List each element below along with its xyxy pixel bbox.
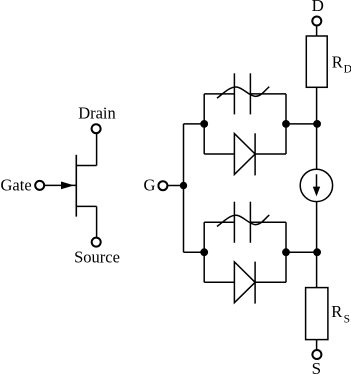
transistor J1 gate arrowhead — [61, 182, 74, 190]
wire lower diode rail left — [204, 281, 234, 283]
wire lower pair right vertical — [285, 222, 287, 282]
wire gate lead — [45, 184, 76, 186]
capacitor C-GD right plate — [249, 73, 251, 114]
node G junction dot — [180, 182, 187, 189]
wire upper pair right vertical — [285, 94, 287, 154]
wire D to RD — [316, 26, 318, 36]
resistor RD — [306, 36, 327, 87]
current source I-D circle — [300, 169, 332, 201]
resistor RS — [306, 288, 328, 340]
node lower-pair right dot — [282, 248, 290, 256]
capacitor C-GD left plate — [233, 73, 235, 114]
diode D-GD cathode bar — [254, 133, 256, 175]
svg-text:S: S — [344, 314, 350, 326]
wire drain horizontal — [76, 165, 96, 167]
wire source vertical — [96, 206, 98, 237]
node lower-pair left dot — [200, 248, 208, 256]
terminal Source (open circle) — [92, 238, 101, 247]
wire upper pair left vertical — [203, 94, 205, 154]
wire lower diode rail right — [255, 281, 286, 283]
svg-text:D: D — [312, 0, 324, 15]
svg-text:G: G — [144, 176, 156, 195]
node upper-pair left dot — [200, 120, 208, 128]
wire lower connector — [286, 251, 317, 253]
terminal G (open circle) — [158, 181, 167, 190]
diode D-GS cathode bar — [254, 262, 256, 304]
transistor J1 channel bar — [75, 155, 77, 217]
wire G rail vertical — [183, 124, 185, 252]
wire upper diode rail left — [204, 153, 234, 155]
capacitor C-GS right plate — [249, 202, 251, 243]
terminal S (open circle) — [312, 350, 321, 359]
capacitor C-GS nonlinear wave mark — [217, 215, 269, 227]
capacitor C-GD nonlinear wave mark — [217, 87, 269, 99]
wire upper capacitor rail right — [250, 93, 286, 95]
node upper-pair right dot — [282, 120, 290, 128]
wire G terminal to rail — [168, 185, 184, 187]
svg-text:D: D — [344, 63, 351, 75]
wire lower capacitor rail left — [204, 221, 234, 223]
svg-text:S: S — [312, 359, 321, 375]
terminal Drain (open circle) — [92, 124, 101, 133]
diode D-GS triangle — [234, 262, 255, 303]
wire lower pair left vertical — [203, 222, 205, 282]
wire drain vertical — [96, 134, 98, 166]
terminal D (open circle) — [312, 17, 321, 26]
wire G rail to lower pair — [184, 251, 205, 253]
wire lower capacitor rail right — [250, 221, 286, 223]
svg-text:Source: Source — [74, 248, 120, 267]
svg-text:Drain: Drain — [78, 104, 116, 123]
current source I-D arrow shaft — [316, 174, 318, 189]
wire current source to RS — [316, 202, 318, 288]
wire RS to S — [316, 340, 318, 350]
svg-text:Gate: Gate — [1, 176, 32, 195]
terminal Gate (open circle) — [35, 181, 44, 190]
wire upper connector — [286, 123, 317, 125]
node source-junction dot — [313, 248, 321, 256]
capacitor C-GS left plate — [233, 202, 235, 243]
wire RD to current source — [316, 87, 318, 169]
diode D-GD triangle — [234, 134, 255, 175]
current source I-D arrowhead — [313, 187, 320, 197]
node drain-junction dot — [313, 120, 321, 128]
wire G rail to upper pair — [184, 123, 205, 125]
svg-text:R: R — [331, 302, 342, 321]
svg-text:R: R — [332, 53, 343, 72]
wire upper capacitor rail left — [204, 93, 234, 95]
wire upper diode rail right — [255, 153, 286, 155]
wire source horizontal — [76, 205, 96, 207]
